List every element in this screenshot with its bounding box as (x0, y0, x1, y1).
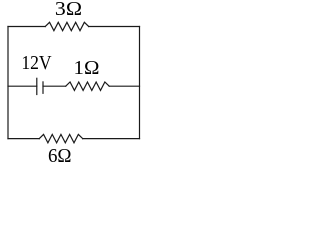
wire middle-right segment (109, 85, 139, 87)
svg-text:12V: 12V (21, 52, 52, 74)
wire left edge (7, 27, 9, 139)
svg-text:6Ω: 6Ω (48, 145, 72, 164)
wire battery-to-resistor segment (43, 85, 66, 87)
resistor R3 6ohm (bottom) (39, 134, 82, 142)
svg-text:3Ω: 3Ω (55, 0, 82, 20)
resistor R2 1ohm (middle) (66, 82, 110, 90)
wire middle-left segment (8, 85, 37, 87)
battery V1 12V short plate (42, 82, 44, 93)
wire right edge (139, 27, 141, 139)
wire bottom-right segment (83, 138, 140, 140)
wire top-right segment (89, 26, 140, 28)
wire top-left segment (8, 26, 45, 28)
battery V1 12V long plate (36, 78, 38, 94)
resistor R1 3ohm (top) (45, 22, 88, 30)
wire bottom-left segment (8, 138, 39, 140)
svg-text:1Ω: 1Ω (74, 57, 100, 79)
